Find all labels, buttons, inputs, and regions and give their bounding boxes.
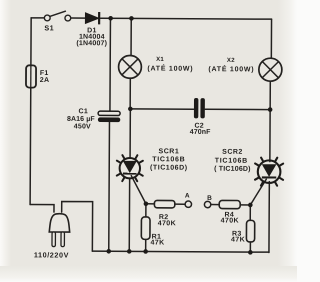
svg-text:8A16 µF: 8A16 µF: [67, 116, 95, 123]
terminal A: [185, 192, 192, 207]
svg-text:TIC106B: TIC106B: [215, 158, 248, 165]
svg-text:(ATÉ 100W): (ATÉ 100W): [208, 64, 254, 73]
node R3 bottom: [248, 250, 253, 255]
svg-text:A: A: [185, 192, 190, 199]
node SCR1 cathode bottom: [127, 249, 132, 254]
wire X1 branch upper: [130, 18, 132, 55]
fuse F1: [26, 65, 49, 87]
diode D1: [76, 12, 107, 47]
resistor R1: [141, 217, 164, 247]
node C1 bottom: [106, 249, 111, 254]
svg-text:470K: 470K: [221, 217, 239, 224]
node SCR1 gate: [144, 201, 149, 206]
wire left rail: [30, 18, 31, 205]
wire C2 horizontal right: [205, 108, 270, 110]
node X1 / C2: [128, 107, 133, 112]
wire R3 bottom: [249, 242, 251, 252]
wire SCR1 gate: [131, 176, 146, 204]
lamp X1: [119, 55, 142, 78]
wire top rail right segment: [101, 17, 272, 20]
capacitor C2: [190, 98, 212, 136]
svg-text:(1N4007): (1N4007): [76, 40, 107, 47]
SCR1: [117, 148, 188, 181]
svg-text:C1: C1: [79, 108, 89, 115]
SCR2: [214, 149, 283, 186]
svg-text:(ATÉ 100W): (ATÉ 100W): [147, 63, 193, 72]
svg-text:450V: 450V: [74, 123, 91, 130]
svg-text:SCR1: SCR1: [159, 148, 180, 155]
node R1 bottom: [143, 249, 148, 254]
wire R3 top: [249, 205, 251, 220]
capacitor C1: [67, 108, 120, 130]
resistor R4: [219, 200, 240, 224]
wire SCR1 cathode to bottom rail: [128, 178, 130, 251]
wire R1 top: [145, 204, 147, 217]
svg-text:( TIC106D): ( TIC106D): [214, 166, 251, 173]
node after D1: [108, 16, 113, 21]
svg-text:470nF: 470nF: [190, 129, 211, 136]
wire SCR2 gate: [250, 179, 266, 205]
wire R2 to A: [175, 203, 185, 205]
resistor R3: [231, 220, 255, 243]
svg-text:X2: X2: [227, 58, 235, 64]
wire C2 horizontal left: [130, 108, 193, 110]
svg-text:2A: 2A: [40, 77, 50, 84]
terminal B: [204, 195, 212, 208]
node X2 / C2: [268, 107, 273, 112]
wire X2 to node: [269, 81, 271, 109]
wire plug right feed: [61, 202, 92, 252]
svg-text:X1: X1: [156, 57, 164, 63]
wire plug left feed: [30, 205, 54, 213]
wire X1 to C2 node: [129, 78, 131, 109]
switch S1: [44, 11, 71, 32]
svg-text:470K: 470K: [158, 220, 176, 227]
wire C1 branch upper: [109, 18, 112, 111]
svg-text:TIC106B: TIC106B: [152, 156, 185, 163]
lamp X2: [259, 58, 282, 81]
resistor R2: [154, 200, 176, 227]
svg-text:110/220V: 110/220V: [34, 250, 69, 259]
wire bottom rail: [92, 250, 269, 253]
wire SCR2 anode: [269, 110, 271, 162]
svg-text:S1: S1: [44, 23, 54, 32]
svg-text:F1: F1: [40, 70, 49, 77]
wire R1 bottom: [145, 239, 147, 251]
svg-text:47K: 47K: [150, 240, 164, 247]
AC plug: [34, 214, 70, 260]
svg-text:B: B: [207, 195, 212, 202]
svg-text:47K: 47K: [231, 236, 245, 243]
wire SCR2 cathode to bottom rail: [268, 182, 270, 253]
svg-text:SCR2: SCR2: [222, 149, 243, 156]
wire R4 to node: [240, 204, 250, 206]
wire R2 left: [146, 203, 154, 205]
wire C1 branch lower: [108, 122, 111, 251]
wire B to R4: [211, 204, 219, 206]
node SCR2 gate: [248, 203, 253, 208]
wire SCR1 anode: [129, 109, 131, 158]
wire right rail top: [270, 19, 272, 58]
svg-text:(TIC106D): (TIC106D): [150, 165, 188, 172]
wire top rail left segment: [31, 17, 44, 19]
wire top rail S1-to-D1 segment: [71, 17, 86, 19]
node X1 top: [129, 16, 134, 21]
